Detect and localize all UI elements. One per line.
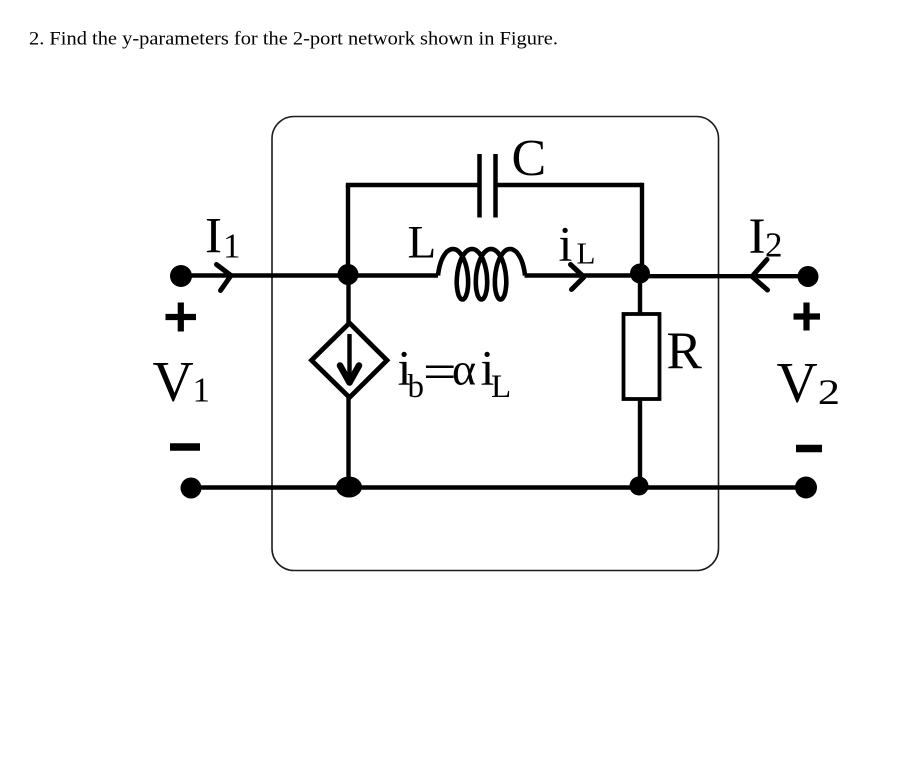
svg-text:L: L xyxy=(408,217,437,269)
resistor R1 body xyxy=(624,314,660,399)
svg-text:L: L xyxy=(577,236,596,271)
wire: resistor to bottom rail xyxy=(638,398,642,487)
port2 bottom terminal xyxy=(795,477,817,499)
wire: port1 to node A xyxy=(181,273,438,277)
dependent source arrowhead xyxy=(340,366,359,383)
port2 top terminal xyxy=(798,266,819,287)
wire: node A down to dependent source xyxy=(346,276,350,325)
capacitor C1 right plate xyxy=(493,154,498,218)
svg-text:i: i xyxy=(559,216,573,272)
wire: node B down to resistor xyxy=(638,276,642,316)
svg-text:α: α xyxy=(452,344,476,395)
current arrow I1 xyxy=(217,265,232,291)
wire: top branch left of capacitor xyxy=(346,183,480,187)
port1 minus sign xyxy=(170,443,200,451)
inductor L1 coil xyxy=(438,249,525,300)
svg-text:1: 1 xyxy=(223,227,241,266)
wire: node B to port 2 xyxy=(640,274,808,278)
svg-text:R: R xyxy=(667,322,703,380)
svg-text:2: 2 xyxy=(765,226,783,265)
wire: top branch right of capacitor xyxy=(496,183,643,187)
svg-text:L: L xyxy=(491,369,511,405)
svg-text:b: b xyxy=(408,369,425,405)
wire: coil to node B xyxy=(525,273,641,277)
port1 plus sign xyxy=(166,303,197,332)
port1 bottom terminal xyxy=(181,478,202,499)
svg-text:2. Find the y-parameters for t: 2. Find the y-parameters for the 2-port … xyxy=(29,29,558,50)
port2 plus sign xyxy=(794,303,821,331)
svg-text:1: 1 xyxy=(193,371,211,410)
svg-text:V: V xyxy=(153,351,194,414)
port1 top terminal xyxy=(170,265,192,287)
wire: dependent source to bottom rail xyxy=(346,397,350,488)
bottom rail wire xyxy=(191,485,806,489)
svg-text:I: I xyxy=(749,209,766,265)
dependent source arrow shaft xyxy=(347,334,351,378)
current arrow I2 (pointing left) xyxy=(752,260,768,291)
port2 minus sign xyxy=(796,445,822,453)
wire: left vertical to capacitor branch xyxy=(346,185,350,277)
capacitor C1 left plate xyxy=(477,154,482,218)
svg-text:C: C xyxy=(512,130,547,187)
svg-text:2: 2 xyxy=(818,372,840,412)
svg-text:V: V xyxy=(777,352,818,415)
node A junction xyxy=(338,264,359,285)
bottom node B junction xyxy=(630,477,649,496)
network box xyxy=(272,117,719,571)
svg-text:I: I xyxy=(205,208,222,264)
dependent current source U1 diamond xyxy=(312,323,388,398)
current arrow iL xyxy=(571,265,585,290)
wire: right vertical from capacitor branch xyxy=(640,183,644,276)
bottom node A junction xyxy=(336,477,362,498)
node B junction xyxy=(630,264,650,284)
